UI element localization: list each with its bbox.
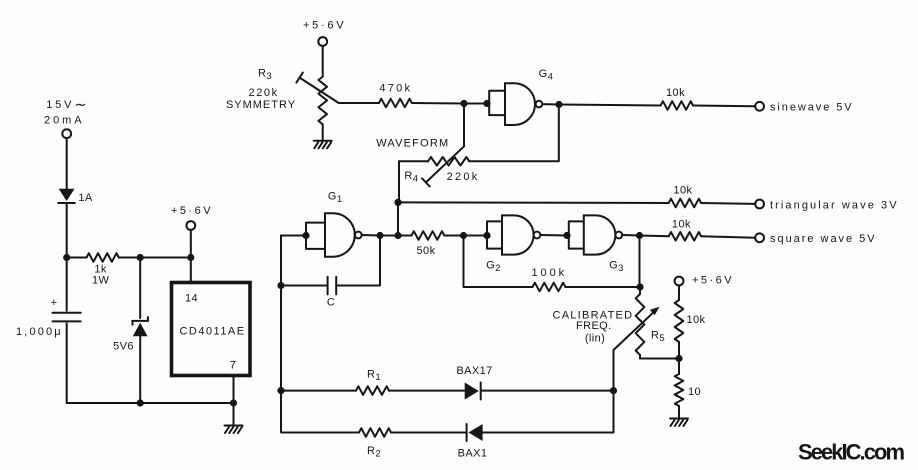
wire triangular long line <box>398 201 669 204</box>
wire input terminal to diode <box>66 138 68 189</box>
svg-text:1W: 1W <box>92 275 110 287</box>
capacitor 1000u electrolytic <box>16 258 81 404</box>
wire 10k to square terminal <box>701 236 755 237</box>
wire bottom rail <box>67 402 234 404</box>
wire 10k to triangular terminal <box>701 202 755 205</box>
node +5.6V supply junction <box>187 254 194 261</box>
wire pin 7 to ground rail <box>233 376 235 404</box>
resistor R4 220k body <box>399 157 478 185</box>
wire R1 line left <box>281 390 356 392</box>
svg-text:+: + <box>51 297 58 309</box>
wire 100k feedback left leg <box>464 236 533 288</box>
svg-text:CD4011AE: CD4011AE <box>180 326 245 338</box>
node capacitor C takeoff <box>376 232 383 239</box>
potentiometer R4 220k WAVEFORM wiper arm <box>422 146 464 186</box>
wire G4 output <box>542 103 559 105</box>
node G3 output junction <box>636 232 643 239</box>
wire R4 wiper vertical <box>463 104 465 147</box>
svg-text:SeekIC.com: SeekIC.com <box>798 440 905 465</box>
terminal square output <box>755 233 875 245</box>
node capacitor trunk junction <box>277 282 284 289</box>
node G4 output junction <box>555 101 562 108</box>
wire R2 line <box>281 431 359 434</box>
op-amp U1 CD4011AE IC box <box>172 283 251 376</box>
node 10k-10 junction <box>675 355 682 362</box>
wire node A to resistor 1k <box>67 257 87 259</box>
node G2 input junction <box>460 232 467 239</box>
svg-text:C: C <box>327 296 335 308</box>
svg-text:20mA: 20mA <box>44 115 82 127</box>
resistor 470k <box>379 83 412 108</box>
node R4 wiper top junction <box>460 100 467 107</box>
wire diode to node A <box>66 203 68 258</box>
svg-text:+5·6V: +5·6V <box>171 205 211 217</box>
wire BAX1 to junction riser <box>481 391 613 433</box>
potentiometer R5 CALIBRATED FREQ <box>636 287 679 359</box>
wire 470k to G4 input <box>412 102 487 105</box>
wire R4 left lead down <box>398 161 400 202</box>
node R1 trunk junction <box>277 387 284 394</box>
node G1 input junction <box>302 232 309 239</box>
wire G2 to G3 <box>540 234 568 237</box>
terminal triangular output <box>755 199 897 211</box>
terminal +5.6V left <box>171 205 211 258</box>
terminal sinewave output <box>755 102 852 114</box>
svg-text:R4: R4 <box>404 170 418 185</box>
wire sinewave line <box>559 105 661 106</box>
svg-text:10k: 10k <box>672 219 691 231</box>
wire G1 output <box>362 234 398 237</box>
ground right <box>670 419 688 427</box>
wire 100k to R5 top <box>566 286 641 288</box>
svg-text:G2: G2 <box>486 260 501 275</box>
wire G3 output down to R5 <box>639 236 641 288</box>
svg-text:SYMMETRY: SYMMETRY <box>226 99 296 111</box>
node A junction <box>63 254 70 261</box>
resistor 10k right <box>675 300 706 342</box>
wire ground stub <box>233 403 235 425</box>
svg-text:15V∼: 15V∼ <box>46 97 87 114</box>
ground main <box>225 426 243 434</box>
node 50k input junction <box>394 232 401 239</box>
node zener top junction <box>137 254 144 261</box>
node R1 R2 wiper junction <box>610 387 617 394</box>
svg-text:5V6: 5V6 <box>113 341 134 353</box>
diode BAX17 <box>456 365 492 400</box>
svg-text:+5·6V: +5·6V <box>303 20 344 32</box>
svg-text:10k: 10k <box>673 185 692 197</box>
wire left trunk <box>280 236 282 432</box>
wire R4 junction down to G1 output node <box>397 202 399 235</box>
svg-text:+5·6V: +5·6V <box>692 274 732 286</box>
ground R3 <box>314 141 332 149</box>
svg-text:10k: 10k <box>687 314 706 326</box>
terminal +5.6V top <box>303 20 344 77</box>
node R5 top junction <box>636 283 643 290</box>
wire R3 bottom to ground <box>322 124 324 140</box>
logic gate G1 NAND <box>306 191 362 257</box>
wire R3 wiper to 470k <box>339 102 379 104</box>
svg-text:WAVEFORM: WAVEFORM <box>376 137 448 149</box>
svg-text:10: 10 <box>688 386 701 398</box>
wire 10k to node <box>678 342 680 359</box>
node triangular takeoff junction <box>394 199 401 206</box>
resistor 50k <box>398 231 487 257</box>
svg-text:50k: 50k <box>417 245 436 257</box>
resistor 10k triangular <box>669 185 701 208</box>
svg-text:R1: R1 <box>367 369 381 384</box>
svg-text:220k: 220k <box>447 171 478 183</box>
wire 10 to ground <box>678 406 680 418</box>
svg-text:BAX1: BAX1 <box>458 448 488 460</box>
svg-text:1A: 1A <box>78 192 93 204</box>
wire R4 right to G4 feedback <box>469 105 559 162</box>
wire pin 14 <box>190 258 192 283</box>
terminal 15V input <box>62 129 71 138</box>
svg-text:R3: R3 <box>258 68 272 83</box>
resistor R2 <box>359 428 391 459</box>
svg-text:G1: G1 <box>328 191 343 206</box>
svg-text:470k: 470k <box>379 83 410 95</box>
svg-text:G3: G3 <box>609 260 624 275</box>
wire R1 to BAX17 <box>389 390 465 392</box>
node G4 input junction <box>483 100 490 107</box>
resistor 1k 1W <box>87 253 119 286</box>
node pin7 ground junction <box>230 399 237 406</box>
svg-text:R2: R2 <box>367 445 381 460</box>
capacitor C <box>281 236 380 309</box>
svg-text:G4: G4 <box>539 68 554 83</box>
svg-text:7: 7 <box>230 360 237 372</box>
potentiometer R3 220k SYMMETRY <box>226 68 339 125</box>
svg-text:10k: 10k <box>666 87 685 99</box>
zener diode 5V6 <box>113 258 148 404</box>
diode 1A rectifier <box>58 189 93 204</box>
resistor 10k sinewave <box>661 87 693 110</box>
wiper R5 arrow <box>614 307 660 391</box>
svg-text:14: 14 <box>185 293 198 305</box>
svg-text:FREQ.: FREQ. <box>576 320 612 332</box>
node G2 bracket junction <box>483 232 490 239</box>
wire 1k to zener node <box>119 257 140 259</box>
wire G1 input from trunk <box>281 235 306 237</box>
wire R2 to BAX1 <box>391 432 467 434</box>
resistor 10k square <box>669 219 701 241</box>
wire zener node to supply node <box>140 257 191 259</box>
diode BAX1 <box>458 424 488 460</box>
svg-text:BAX17: BAX17 <box>456 365 492 377</box>
svg-text:1,000μ: 1,000μ <box>16 326 61 338</box>
logic gate G2 NAND <box>486 215 540 274</box>
wire 10k to sinewave terminal <box>693 105 755 108</box>
logic gate G4 NAND <box>489 68 553 125</box>
node 15V AC input label <box>44 97 87 127</box>
resistor 10 <box>675 359 701 407</box>
svg-text:sinewave 5V: sinewave 5V <box>770 102 852 114</box>
wire BAX17 to R5 wiper node <box>481 390 614 392</box>
label CALIBRATED FREQ lin <box>553 309 633 344</box>
resistor 100k <box>532 267 566 291</box>
svg-text:square wave 5V: square wave 5V <box>770 233 875 245</box>
svg-text:220k: 220k <box>249 87 278 99</box>
svg-text:(lin): (lin) <box>585 332 605 344</box>
wire G3 output to square line <box>622 235 669 236</box>
logic gate G3 NAND <box>569 215 624 274</box>
resistor R1 <box>356 369 389 395</box>
node zener bottom junction <box>137 399 144 406</box>
node G3 input junction <box>563 232 570 239</box>
svg-text:R5: R5 <box>651 330 665 345</box>
svg-text:triangular wave 3V: triangular wave 3V <box>770 199 897 211</box>
svg-text:100k: 100k <box>532 267 565 279</box>
terminal +5.6V right <box>675 274 733 300</box>
